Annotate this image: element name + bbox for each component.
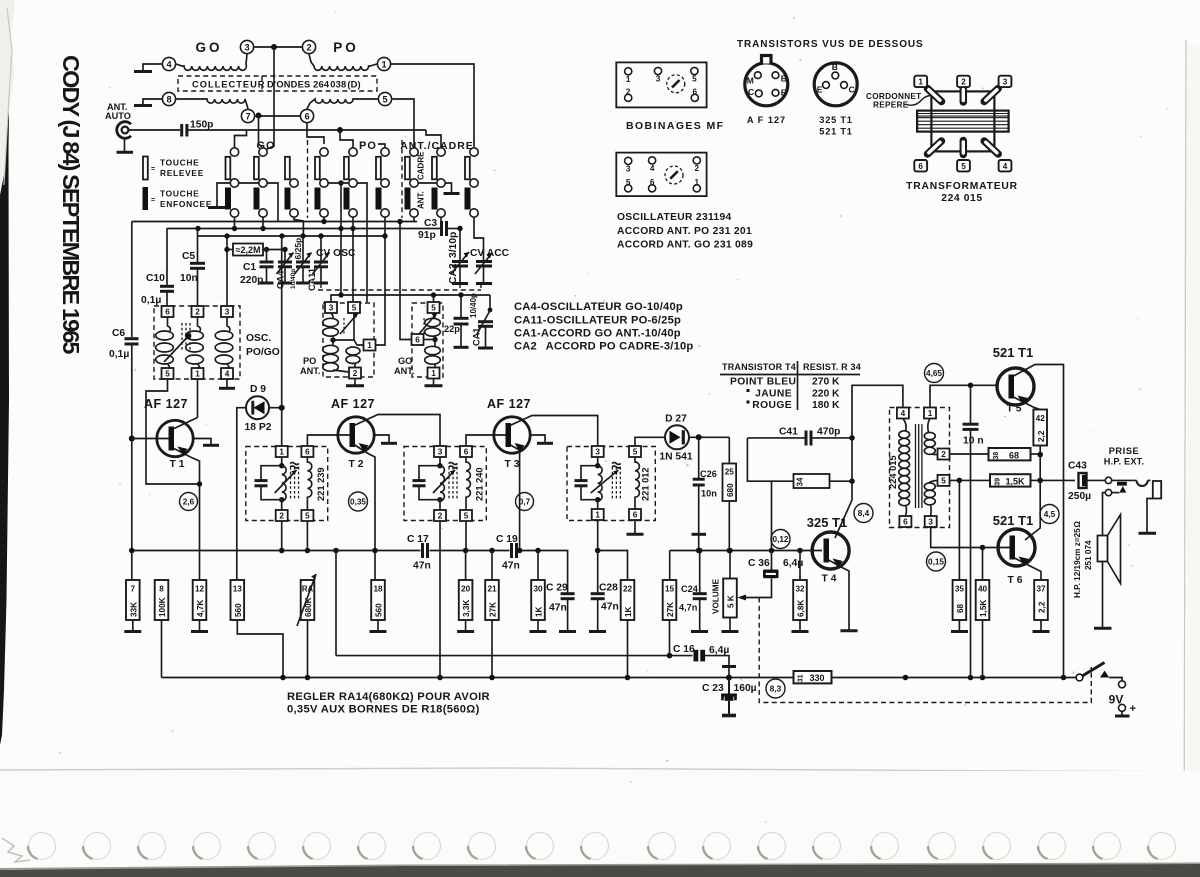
junction bus550 x492 [489, 548, 495, 554]
potentiometer VOLUME 5K [729, 551, 731, 579]
svg-text:0,15: 0,15 [928, 558, 944, 567]
wire PO ANT pin2 to ground [354, 379, 356, 385]
svg-text:25: 25 [725, 468, 735, 477]
resistor R31 330 [794, 671, 832, 683]
terminal circle 5 [378, 92, 391, 105]
wire R35 riser [958, 480, 960, 580]
svg-text:C6: C6 [112, 328, 125, 339]
osc pin 1 [192, 368, 204, 379]
wire c5 right to col7 [392, 99, 414, 147]
osc coil slug (dashed) [665, 166, 683, 184]
wire c8 to ground [143, 99, 162, 104]
wire R22 to bottom bus [627, 620, 629, 678]
svg-text:33K: 33K [129, 602, 138, 617]
ground (jack) [1139, 532, 1157, 535]
wire riser R30 [537, 551, 539, 581]
svg-text:680: 680 [726, 483, 735, 497]
junction 2,2M right [264, 247, 269, 252]
wire D9 right to MF1 pin1 column [269, 407, 282, 409]
svg-text:ANT.: ANT. [394, 366, 414, 376]
svg-text:10n: 10n [180, 273, 198, 284]
PO ANT coil upper [331, 313, 333, 318]
svg-text:1K: 1K [535, 606, 544, 617]
T5 emitter arrow [1018, 396, 1028, 405]
svg-text:5: 5 [464, 512, 469, 521]
junction bottom bus x440 [437, 675, 443, 681]
wire tap to pin1 / pin5 riser [333, 340, 364, 345]
svg-text:20: 20 [461, 585, 471, 594]
junction R40 tap [980, 545, 986, 551]
bobinage pin 3 [654, 67, 661, 74]
T2 emitter wire to R18 [354, 445, 375, 581]
T3 emitter wire to bus550 [510, 445, 520, 551]
wire bus550 right segment [670, 551, 822, 581]
junction bus 282,236 [279, 233, 284, 238]
svg-text:H.P. 12/19cm z=25 Ω: H.P. 12/19cm z=25 Ω [1073, 521, 1082, 598]
svg-text:0,1µ: 0,1µ [109, 349, 129, 360]
svg-text:3: 3 [1003, 78, 1008, 87]
ground (speaker) [1094, 627, 1112, 630]
battery terminal + [1119, 704, 1126, 711]
svg-text:220 K: 220 K [812, 389, 840, 400]
junction bus 400 [397, 219, 402, 224]
svg-text:150p: 150p [190, 120, 213, 131]
wire AGC riser [335, 551, 337, 656]
transformer pin 1 [924, 408, 936, 419]
svg-text:40: 40 [978, 585, 988, 594]
resistor R12 4,7K [193, 580, 207, 620]
svg-text:C: C [748, 87, 754, 97]
svg-text:521 T1: 521 T1 [993, 345, 1033, 360]
svg-text:68: 68 [956, 603, 965, 613]
svg-text:1N 541: 1N 541 [659, 452, 692, 463]
oscillator coil box OSC PO/GO [154, 306, 240, 379]
svg-text:TOUCHE: TOUCHE [160, 158, 199, 168]
junction C3/CA2 [457, 226, 462, 231]
torn bottom-left corner marks [2, 838, 30, 862]
volume wiper arrow [738, 595, 747, 601]
transistor T4 325T1 [812, 532, 849, 569]
transistor T5 521T1 [997, 368, 1034, 405]
GO ANT pin 1 [428, 368, 440, 379]
svg-text:22p: 22p [444, 324, 460, 334]
svg-text:=: = [151, 197, 155, 204]
junction 10n tap [968, 383, 974, 389]
svg-text:GO: GO [195, 40, 222, 55]
jack second contact [1105, 489, 1111, 495]
T3 ground stub [530, 435, 546, 442]
potentiometer RA14 680K [301, 580, 315, 620]
svg-text:34: 34 [796, 477, 805, 486]
svg-text:3,3K: 3,3K [462, 600, 471, 617]
svg-text:3: 3 [595, 448, 600, 457]
wire R13 bottom link [237, 620, 283, 678]
legend TOUCHE ENFONCEE [143, 187, 149, 210]
osc coil pin 5 [625, 185, 632, 192]
osc pin 5 [162, 368, 174, 379]
osc coil pin 2 [693, 157, 700, 164]
svg-text:5: 5 [352, 304, 357, 313]
wire C36 to volume wiper [740, 579, 772, 598]
T6 emitter wire [1015, 558, 1042, 580]
wire c7-c6 [255, 115, 300, 117]
switch S3 [285, 157, 290, 180]
T6 emitter arrow [1019, 557, 1029, 566]
junction C41/T4 collector [849, 435, 855, 441]
transformateur tab 4 [999, 160, 1012, 171]
terminal circle 6 [300, 109, 313, 122]
wire col2 mid riser to bus [267, 183, 278, 222]
svg-text:C43: C43 [1068, 461, 1087, 472]
svg-text:15: 15 [665, 585, 675, 594]
GO ANT coil upper [434, 313, 436, 318]
svg-text:ENFONCEE: ENFONCEE [160, 199, 212, 209]
svg-text:E: E [781, 88, 787, 98]
wire MF1 pin6 to T2 base [307, 435, 349, 446]
svg-text:COLLECTEUR: COLLECTEUR [192, 80, 266, 90]
svg-text:4: 4 [1003, 162, 1008, 171]
battery terminal - [1119, 681, 1126, 688]
svg-text:10n: 10n [701, 489, 717, 499]
wire MF3 pin5 riser to D27 [635, 437, 665, 446]
svg-text:37: 37 [1036, 585, 1046, 594]
wire C24 column [699, 551, 701, 593]
svg-text:RELEVEE: RELEVEE [160, 168, 204, 178]
wire to speaker [1103, 493, 1106, 536]
svg-text:13: 13 [233, 585, 243, 594]
wire T1 base [132, 438, 169, 440]
ground (battery) [1115, 715, 1130, 718]
svg-text:POINT BLEU: POINT BLEU [730, 377, 796, 388]
svg-text:680K: 680K [304, 597, 313, 617]
bottom dark strip [0, 864, 1200, 877]
wire R15 to AGC line [669, 620, 671, 656]
svg-text:AUTO: AUTO [105, 111, 131, 121]
ground (T3) [537, 442, 553, 445]
GO ANT trimmer arrow + core [419, 313, 437, 334]
svg-text:4: 4 [901, 409, 906, 418]
wire pin5 to R39 [950, 479, 991, 481]
bottom page edge line [0, 768, 1200, 772]
jack sleeve [1153, 481, 1161, 499]
svg-text:3: 3 [438, 448, 443, 457]
svg-text:CA2 ACCORD PO CADRE-3/10p: CA2 ACCORD PO CADRE-3/10p [514, 341, 693, 353]
svg-text:REPERE: REPERE [873, 101, 909, 110]
resistor 2,2M osc [226, 236, 228, 306]
svg-text:D 9: D 9 [250, 384, 266, 395]
ground (osc pin4) [219, 387, 235, 390]
approx mark (MF2) [449, 463, 458, 469]
T5 emitter wire to R42 [1014, 397, 1041, 410]
bar on C16 return [722, 665, 736, 668]
wire bus y228 [167, 228, 441, 230]
wire AGC line y655 [336, 655, 693, 657]
bobinage pin 6 [691, 94, 698, 101]
svg-text:C26: C26 [700, 469, 717, 479]
svg-text:251 074: 251 074 [1084, 540, 1093, 570]
svg-text:T 1: T 1 [170, 459, 185, 470]
svg-text:5: 5 [165, 370, 170, 379]
svg-text:1: 1 [595, 511, 600, 520]
ground (R30) [537, 620, 539, 630]
PO ANT coil lower [332, 340, 334, 345]
resistor R22 1K [621, 580, 635, 620]
resistor R15 27K [663, 580, 677, 620]
junction bottom bus x727.5 [726, 675, 732, 681]
svg-text:ACCORD ANT. PO 231 201: ACCORD ANT. PO 231 201 [617, 226, 752, 237]
svg-text:5: 5 [382, 95, 387, 105]
junction bus550 x336 [333, 548, 339, 554]
svg-text:47n: 47n [413, 561, 431, 572]
junction bus 234.5,228.5 [232, 226, 237, 231]
osc coil winding [227, 317, 230, 331]
junction bus550 x597.7 [595, 548, 601, 554]
svg-text:CA1-ACCORD GO ANT.-10/40p: CA1-ACCORD GO ANT.-10/40p [514, 328, 681, 340]
junction bus550 x131.8 [129, 548, 135, 554]
T1 emitter wire [173, 448, 200, 580]
T2 emitter arrow [359, 443, 369, 452]
voltage 0,7 [516, 493, 534, 511]
svg-text:8: 8 [159, 585, 164, 594]
wire junction down to CA2 [459, 229, 461, 261]
terminal circle 8 [162, 92, 175, 105]
wire mid link col7-col8 [418, 182, 437, 184]
junction emitter/feedback [197, 481, 202, 486]
junction bus550 x698.7 [696, 548, 702, 554]
wire C28 column [597, 551, 599, 593]
svg-text:CA11-OSCILLATEUR PO-6/25p: CA11-OSCILLATEUR PO-6/25p [514, 315, 681, 327]
PO ANT trimmer arrow + core [340, 313, 358, 334]
svg-text:CA1: CA1 [472, 328, 482, 346]
junction bottom bus x283 [280, 675, 286, 681]
svg-text:PO/GO: PO/GO [246, 347, 280, 358]
wire pin3 to T6 base [931, 527, 1010, 548]
svg-text:6: 6 [464, 448, 469, 457]
switch S7 [410, 148, 418, 156]
svg-text:PRISE: PRISE [1109, 446, 1140, 456]
svg-text:4: 4 [166, 60, 172, 70]
osc coil pin 4 [649, 157, 656, 164]
node junction x261 [256, 113, 262, 119]
wire D27 right [689, 436, 729, 438]
junction bottom bus x307.5 [305, 675, 311, 681]
svg-text:6: 6 [903, 518, 908, 527]
wire col1 mid to ground [217, 183, 230, 206]
svg-text:100K: 100K [158, 597, 167, 617]
voltage 4,5 [1040, 505, 1059, 524]
wire bottom bus y677 [162, 677, 1080, 679]
junction bus550 x465.6 [463, 548, 469, 554]
svg-text:C3: C3 [424, 218, 437, 229]
transformateur 224015 body [931, 91, 994, 151]
svg-text:6: 6 [650, 178, 655, 187]
trimmer CV OSC [320, 236, 322, 261]
resistor R38 68 [989, 448, 1031, 460]
svg-text:38: 38 [993, 452, 1000, 460]
node junction x274 [271, 44, 277, 50]
switch S5 [349, 148, 357, 156]
ground (ant coil left) [134, 104, 152, 107]
dashed separator PO/ANT [401, 140, 403, 218]
osc coil pin 1 [693, 185, 700, 192]
wire S8 bottom riser [440, 217, 442, 228]
svg-text:H.P. EXT.: H.P. EXT. [1104, 457, 1144, 467]
wire riser col5 [340, 130, 353, 147]
svg-text:1: 1 [928, 409, 933, 418]
svg-text:4,65: 4,65 [926, 369, 942, 378]
wire C6 down to R7 [131, 344, 133, 580]
switch S4 [320, 148, 328, 156]
svg-text:224 015: 224 015 [888, 455, 898, 489]
wire MF2 pin6 to T3 base [466, 435, 506, 446]
junction bus550 x538 [535, 548, 541, 554]
transistor T3 AF127 [494, 417, 530, 453]
coil box PO ANT [323, 303, 374, 377]
svg-text:10/40p: 10/40p [469, 293, 478, 318]
svg-text:D'ONDES 264 038 (D): D'ONDES 264 038 (D) [267, 80, 361, 90]
PO ANT pin 5 [348, 302, 360, 313]
wire R8 to bottom bus [161, 620, 163, 678]
svg-text:VOLUME: VOLUME [712, 578, 721, 614]
scan left black edge strip [0, 0, 11, 745]
svg-text:47n: 47n [601, 602, 619, 613]
wire c3-c2 with junction [254, 46, 302, 48]
svg-text:91p: 91p [418, 230, 436, 241]
svg-text:6: 6 [918, 162, 923, 171]
T5 collector wire [1014, 365, 1064, 678]
wire R34 tap riser [771, 481, 773, 550]
transformateur tab 5 [957, 160, 970, 171]
power switch [1076, 674, 1083, 681]
svg-text:E: E [817, 85, 823, 95]
jack tip contact [1105, 477, 1111, 483]
wire col4 mid riser to tuning line [340, 183, 342, 295]
box BOBINAGES MF [616, 62, 706, 107]
wire R42-R38-T6 column [1025, 455, 1040, 540]
svg-text:1: 1 [367, 341, 372, 350]
svg-text:1,5K: 1,5K [979, 600, 988, 617]
wire pin1 to T5 base [930, 385, 997, 407]
svg-text:A F 127: A F 127 [747, 115, 786, 125]
T3 emitter arrow [515, 443, 525, 452]
antenna connector [117, 122, 131, 139]
wire MF1 pin5 to bus550 [306, 521, 308, 551]
wire c4 to ground [143, 64, 162, 70]
transformateur laminations [917, 111, 1009, 132]
ground (C29) [559, 630, 576, 633]
terminal circle 1 [377, 57, 390, 70]
wire riser R20/MF2pin5 [465, 551, 467, 581]
T3 collector wire to MF3 pin3 [510, 416, 598, 446]
approx mark (MF1) [290, 463, 299, 469]
svg-text:6: 6 [304, 112, 309, 122]
svg-text:6,4µ: 6,4µ [709, 645, 729, 656]
PO ANT pin 3 [325, 302, 337, 313]
wire connector to 150p [128, 129, 180, 131]
driver transformer 224015 [890, 408, 950, 528]
wire down from node 274 to switch col2 [267, 47, 274, 149]
junction pin5/R35 [957, 478, 963, 484]
wire S4 bottom riser [323, 217, 325, 221]
junction bottom bus x1063.5 [1061, 675, 1067, 681]
wire S7 bottom riser [413, 217, 415, 221]
svg-text:6: 6 [305, 448, 310, 457]
switch S2 [259, 148, 267, 156]
svg-text:325 T1: 325 T1 [807, 515, 847, 530]
svg-text:ACCORD ANT. GO 231 089: ACCORD ANT. GO 231 089 [617, 240, 753, 251]
svg-text:OSC.: OSC. [246, 333, 271, 344]
svg-text:CODY (J 84) SEPTEMBRE 1965: CODY (J 84) SEPTEMBRE 1965 [58, 55, 84, 355]
jack contact triangle [1119, 486, 1126, 493]
svg-text:221 012: 221 012 [641, 467, 651, 501]
wire R21 to bottom bus [491, 620, 493, 678]
svg-text:27K: 27K [666, 602, 675, 617]
pinout AF127 [745, 63, 788, 106]
svg-text:10 n: 10 n [963, 436, 984, 447]
transformateur tab 2 [957, 76, 970, 87]
bobinage slug (dashed) [667, 75, 685, 93]
svg-text:5 K: 5 K [727, 595, 736, 608]
svg-text:3: 3 [244, 43, 249, 53]
svg-text:4: 4 [225, 370, 230, 379]
IF transformer MF1 221239 [246, 447, 328, 521]
svg-text:B: B [832, 62, 838, 72]
bar on C26 return [692, 533, 707, 536]
svg-text:3/10p: 3/10p [448, 232, 459, 258]
osc pin 6 [162, 306, 174, 317]
box oscillateur coil [616, 153, 706, 197]
svg-text:35: 35 [955, 585, 965, 594]
wire C6 column (bus to T1 base) [131, 222, 133, 338]
svg-text:27K: 27K [489, 602, 498, 617]
wire bus y221.5 [132, 221, 417, 223]
trimmer CA11 6/25p [302, 236, 304, 261]
T1 emitter arrow [178, 447, 188, 456]
svg-text:2,2: 2,2 [1037, 430, 1046, 442]
junction R39/T6 collector [1037, 478, 1043, 484]
svg-text:18: 18 [373, 585, 383, 594]
ground (R7) [132, 620, 134, 630]
PO ANT pin 1 [364, 340, 376, 351]
wire S6 bottom riser [375, 217, 386, 345]
wire connector to ground [124, 138, 126, 151]
dashed gang line CV [318, 289, 481, 291]
svg-text:2: 2 [961, 78, 966, 87]
wire S1 bottom riser [234, 217, 236, 228]
wire MF3 pin1 to bus550 [597, 520, 599, 551]
svg-text:T 3: T 3 [505, 459, 520, 470]
jack break contact bar [1112, 479, 1137, 481]
svg-text:0,35: 0,35 [350, 498, 366, 507]
svg-text:521 T1: 521 T1 [819, 127, 852, 137]
svg-text:2: 2 [353, 369, 358, 378]
junction bus550 x519.6 [517, 548, 523, 554]
voltage 0,35 [349, 492, 368, 511]
svg-text:AF 127: AF 127 [144, 397, 188, 411]
svg-text:160µ: 160µ [734, 683, 757, 694]
junction 2,2M left [224, 247, 229, 252]
node junction x340 ant line [337, 127, 343, 133]
svg-text:32: 32 [795, 585, 805, 594]
transformer pin 2 [938, 449, 950, 460]
transformer pin 3 [925, 516, 937, 527]
svg-text:5: 5 [692, 75, 697, 84]
wire bus y236 [198, 235, 386, 237]
svg-text:8,4: 8,4 [858, 509, 870, 518]
junction bottom bus x970.5 [968, 675, 974, 681]
svg-text:2,2: 2,2 [1038, 601, 1047, 613]
svg-text:270 K: 270 K [812, 377, 840, 388]
